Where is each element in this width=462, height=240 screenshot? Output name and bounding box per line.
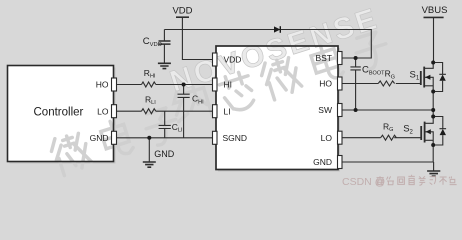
controller box shadow bbox=[10, 68, 116, 164]
wire HO right bbox=[342, 83, 421, 85]
pin BST IC bbox=[338, 52, 343, 65]
pin GND IC bbox=[338, 156, 343, 169]
node S2 drain bbox=[431, 115, 435, 119]
svg-text:BST: BST bbox=[315, 53, 332, 63]
node VDD rail bar bbox=[176, 16, 189, 18]
wire C_VDD branch down bbox=[163, 30, 165, 42]
ground symbol power bbox=[427, 171, 440, 176]
svg-text:VDD: VDD bbox=[224, 55, 242, 65]
svg-text:GND: GND bbox=[313, 157, 332, 167]
node S2 source bbox=[431, 143, 435, 147]
svg-text:LI: LI bbox=[224, 106, 231, 116]
glyph wei2 微 bbox=[258, 55, 303, 102]
pin SGND IC bbox=[213, 131, 218, 144]
pin HO IC bbox=[338, 77, 343, 90]
IC box fill bbox=[216, 46, 338, 170]
S2 body diode branch bbox=[433, 117, 446, 146]
capacitor C_LI bbox=[159, 111, 171, 138]
transistor Q2 S2 bbox=[425, 117, 434, 124]
controller box fill bbox=[8, 66, 114, 162]
capacitor C_VDD bbox=[159, 41, 171, 44]
diode bootstrap bbox=[274, 26, 280, 32]
S1 body arrow bbox=[425, 75, 430, 80]
node GND junction bbox=[147, 136, 151, 140]
svg-text:GND: GND bbox=[90, 133, 109, 143]
CSDN watermark bbox=[342, 175, 457, 188]
pin HO controller bbox=[112, 78, 117, 91]
S2 body diode triangle bbox=[440, 129, 446, 135]
resistor R_HI bbox=[142, 82, 156, 87]
svg-text:HO: HO bbox=[96, 80, 109, 90]
wire SW right bbox=[342, 109, 433, 111]
op-amp U1 main IC box border bbox=[216, 46, 338, 170]
node VBUS rail bar bbox=[424, 16, 444, 18]
glyph wei 微 bbox=[48, 130, 93, 177]
glyph dian2 电 bbox=[309, 41, 345, 83]
node SW/C_BOOT junction bbox=[354, 108, 358, 112]
wire LO right bbox=[342, 137, 421, 139]
pin LO controller bbox=[112, 105, 117, 118]
capacitor C_BOOT bbox=[350, 58, 360, 110]
node S1 drain bbox=[431, 61, 435, 65]
wire GND to SGND bbox=[117, 137, 213, 139]
pin LI IC bbox=[213, 105, 218, 118]
pin HI IC bbox=[213, 78, 218, 91]
svg-text:GND: GND bbox=[154, 149, 175, 159]
svg-text:HO: HO bbox=[319, 79, 332, 89]
svg-text:Controller: Controller bbox=[34, 107, 84, 119]
S1 body diode triangle bbox=[439, 75, 445, 81]
node BST/C_BOOT junction bbox=[354, 56, 358, 60]
pin SW IC bbox=[338, 104, 343, 117]
node S1 source bbox=[431, 90, 435, 94]
svg-text:HI: HI bbox=[224, 80, 233, 90]
glyph dian 电 bbox=[99, 117, 135, 159]
glyph zi2 子 bbox=[352, 30, 392, 71]
wire bootstrap top run bbox=[164, 30, 371, 59]
wire S1 source to S2 drain bbox=[432, 92, 434, 117]
wire VDD vertical to pin VDD bbox=[182, 17, 212, 59]
S1 body diode branch bbox=[433, 63, 446, 92]
wire S2 source to GND bbox=[432, 145, 434, 162]
IC box shadow bbox=[218, 48, 340, 172]
watermark chinese drawn glyphs bbox=[48, 30, 392, 177]
pin LO IC bbox=[338, 131, 343, 144]
S2 body arrow bbox=[426, 129, 431, 134]
glyph na 纳 bbox=[170, 84, 212, 125]
resistor R_G high bbox=[378, 81, 394, 86]
wire HO to HI bbox=[117, 84, 213, 86]
svg-text:VBUS: VBUS bbox=[422, 5, 448, 16]
wire GND stub down bbox=[148, 138, 150, 162]
svg-text:SGND: SGND bbox=[223, 133, 248, 143]
glyph xin 芯 bbox=[218, 70, 258, 114]
capacitor C_HI bbox=[178, 85, 190, 138]
node SW bbox=[431, 108, 435, 112]
wire GND right bbox=[342, 162, 434, 171]
controller box border bbox=[8, 66, 114, 162]
resistor R_G low bbox=[381, 135, 397, 140]
transistor Q1 S1 bbox=[424, 63, 433, 69]
resistor R_LI bbox=[142, 109, 156, 114]
svg-text:SW: SW bbox=[318, 105, 332, 115]
ground symbol signal bbox=[143, 162, 156, 167]
svg-text:VDD: VDD bbox=[172, 6, 192, 17]
svg-text:LO: LO bbox=[97, 106, 109, 116]
pin VDD IC bbox=[213, 53, 218, 66]
pseudo CJK username glyphs bbox=[377, 175, 457, 185]
glyph zi 子 bbox=[142, 106, 182, 147]
wire VBUS down bbox=[433, 17, 435, 62]
node HI/C_HI junction bbox=[182, 83, 186, 87]
svg-text:LO: LO bbox=[321, 133, 333, 143]
wire LO to LI bbox=[117, 110, 213, 112]
wire BST to corner bbox=[342, 57, 371, 59]
ground under C_VDD bbox=[158, 63, 171, 68]
pin GND controller bbox=[112, 131, 117, 144]
watermark NOVOSENSE bbox=[166, 2, 383, 99]
